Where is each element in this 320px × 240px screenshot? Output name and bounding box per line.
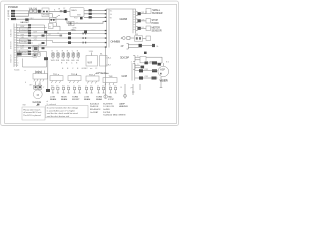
lamp box small1 [146, 9, 151, 14]
svg-text:GAUGE: GAUGE [33, 101, 42, 104]
svg-text:4P: 4P [121, 45, 124, 48]
connector dark row19 [25, 18, 28, 20]
svg-text:an: an [90, 68, 92, 70]
connector pair lower [145, 62, 148, 65]
svg-text:GAUGE: GAUGE [10, 29, 13, 37]
component box small A [33, 54, 37, 58]
box right of b1 [140, 56, 146, 62]
svg-text:POWER: POWER [8, 5, 18, 9]
capacitor C4 [66, 51, 70, 65]
connector battery input pin 4 [11, 18, 16, 20]
bracket connector b2 [133, 64, 135, 70]
svg-text:Please don't touch: Please don't touch [23, 108, 41, 111]
svg-text:B/W: B/W [34, 32, 38, 34]
ground bulb center [104, 95, 108, 99]
svg-text:5W: 5W [23, 105, 26, 107]
diode D1 [122, 37, 125, 40]
connector left of caps [44, 57, 48, 60]
svg-text:VISER: VISER [160, 78, 168, 82]
svg-text:of learned ECU unit: of learned ECU unit [23, 111, 42, 114]
label box CN1-3 [20, 50, 29, 54]
wire down to front lamps [47, 61, 49, 90]
ECU pin marks mid left [105, 30, 107, 31]
connector J3 [89, 9, 92, 11]
svg-text:GAUGE?: GAUGE? [20, 21, 30, 24]
wire aux links [57, 23, 61, 31]
connector J4 [89, 13, 92, 15]
svg-text:METER: METER [11, 41, 13, 49]
svg-text:LR-f: LR-f [107, 64, 112, 66]
connector dark on horn top [158, 63, 161, 66]
svg-text:G=RED: G=RED [103, 109, 111, 111]
lamp group 4 [84, 86, 93, 101]
svg-text:B2: B2 [49, 34, 51, 36]
svg-text:REAR: REAR [96, 98, 102, 101]
svg-text:LAMP: LAMP [119, 102, 125, 105]
connector J1 [38, 10, 41, 13]
bracket connector right 2 [136, 19, 138, 23]
svg-text:and the do-it bostne stuf: and the do-it bostne stuf [47, 115, 70, 118]
DUM box pins [36, 71, 45, 74]
capacitor C3 [61, 51, 65, 65]
svg-text:4P Hw/dw: 4P Hw/dw [98, 73, 108, 75]
svg-text:HORN: HORN [152, 22, 159, 25]
connector J2 [64, 10, 67, 13]
fuse F2 [34, 9, 37, 12]
label box CN1-1 [20, 28, 29, 32]
svg-text:BR=BLACK: BR=BLACK [90, 108, 101, 111]
DUM hatches [34, 79, 44, 81]
switch box 2 [69, 21, 75, 25]
legend column 1 [90, 102, 101, 113]
aux switch box [49, 24, 54, 29]
arrow mark [152, 44, 155, 47]
capacitor C2 [56, 51, 60, 62]
dark mark top right of section [144, 52, 147, 54]
note box 1 [22, 107, 45, 120]
wire row4 to ECU [96, 21, 107, 23]
svg-text:It can be twisted when the vol: It can be twisted when the voltage [47, 107, 79, 110]
small components mid row 35.5 [60, 35, 63, 37]
ECU box U1 [107, 9, 136, 48]
bracket connector 4P [127, 43, 129, 49]
lamp box small3 [146, 26, 151, 31]
svg-text:G=GRAY: G=GRAY [90, 111, 99, 114]
lamp group 3 [72, 86, 81, 101]
fuse box FB1 [42, 8, 49, 17]
svg-text:FRONT: FRONT [72, 99, 80, 101]
svg-text:Y=YELLOW: Y=YELLOW [103, 106, 114, 108]
dark box CN1 lower [17, 53, 22, 56]
capacitor C6 [76, 51, 80, 65]
svg-text:3D/C9P: 3D/C9P [120, 56, 129, 60]
svg-text:FR: FR [135, 34, 138, 36]
connector blobs column x29 [28, 24, 31, 55]
lamp box small2 [146, 19, 151, 24]
connector small row4 [65, 18, 67, 20]
wire ECU down [105, 48, 107, 95]
legend column 2 [103, 103, 126, 116]
bracket connector right 3 [136, 27, 138, 31]
svg-text:and the the check would be wir: and the the check would be wired [47, 112, 79, 115]
svg-text:SWITCH: SWITCH [11, 54, 13, 63]
svg-text:BEAM: BEAM [84, 98, 90, 101]
cap pin labels row2 [62, 68, 79, 70]
lamp group 2 [61, 86, 70, 101]
wire fuse box to main switch [49, 10, 70, 12]
connector horn bar 2 [139, 76, 143, 79]
wires mid right [135, 70, 158, 72]
svg-text:GAU: GAU [30, 17, 35, 20]
svg-text:GMAB: GMAB [120, 17, 128, 21]
connector horn bar 1 [139, 69, 143, 72]
wire vertical right [144, 57, 162, 63]
capacitor C5 [71, 51, 75, 65]
svg-text:MAIN: MAIN [71, 9, 77, 12]
lamp group 6 [108, 86, 117, 101]
bracket connector right 1 [136, 12, 138, 16]
dark blob left of lamps [46, 89, 50, 92]
connector pair 4P [139, 44, 142, 47]
connector dark mid [84, 30, 87, 33]
svg-text:Twd/Bw/dr MBdr GREEN: Twd/Bw/dr MBdr GREEN [103, 115, 126, 117]
connector dark top mid [80, 17, 83, 19]
svg-text:HSP: HSP [160, 69, 165, 72]
wire switch out 1 [84, 9, 107, 11]
motor M1 [33, 90, 42, 99]
connector battery input pin 2 [11, 13, 15, 15]
wire micro labels [34, 8, 57, 54]
empty box right [146, 36, 151, 41]
horn speaker SP1 [158, 66, 169, 76]
connector bar horn [131, 63, 133, 81]
wire switch out 2 [84, 13, 107, 15]
svg-text:Tamb: Tamb [14, 70, 20, 72]
DUM box [33, 74, 48, 79]
svg-text:BEAM: BEAM [50, 98, 56, 101]
svg-text:W=BLUE: W=BLUE [90, 106, 99, 108]
svg-text:GO8: GO8 [122, 74, 128, 78]
wire power row 1 [15, 10, 42, 12]
wire box to right vertical [146, 56, 162, 58]
svg-text:W R: W R [88, 62, 93, 65]
fuse F1 [30, 9, 33, 12]
svg-text:2 OR: 2 OR [147, 62, 153, 64]
page scan edge (decorative, unlabeled content below starts with schematic) [1, 1, 179, 125]
svg-text:OR: OR [145, 76, 149, 78]
connector dark mid-left [44, 31, 47, 34]
main switch box SW1 [70, 8, 84, 17]
wire ticks x80-84 rows [83, 33, 87, 44]
motor top box [35, 82, 37, 86]
relay box K3 [100, 56, 108, 67]
lamp group 1 [50, 86, 59, 101]
svg-text:LR-1: LR-1 [107, 58, 113, 60]
bracket connector b1 [133, 56, 135, 62]
ECU pin bar [108, 9, 110, 48]
wire branch down [53, 14, 61, 18]
connector J5 [89, 16, 92, 18]
connector dark x68 row42.5 [68, 41, 71, 44]
svg-text:SENSOR: SENSOR [152, 29, 162, 32]
connector horn 2 [152, 77, 157, 80]
svg-text:is used if ACC just #7 is high: is used if ACC just #7 is higher [47, 109, 75, 112]
svg-text:The ECU is placed: The ECU is placed [23, 115, 41, 117]
switch box on row4 wire [50, 17, 57, 22]
wire power row 3 [15, 11, 29, 16]
relay FR box [135, 36, 143, 41]
svg-text:FUSE: FUSE [43, 15, 49, 17]
svg-text:W/B: W/B [51, 60, 55, 62]
svg-text:STOP: STOP [108, 99, 114, 101]
ECU pin marks left [105, 10, 107, 11]
connector dark x68 row36-39 [68, 32, 71, 35]
relay K1 [33, 46, 39, 51]
connector dark x68 row38 [68, 37, 71, 40]
ground bulb [124, 94, 127, 97]
svg-text:15A: 15A [33, 7, 37, 10]
wire to lamp box 1 [141, 11, 146, 14]
wire power row 4 [14, 19, 96, 23]
svg-text:BEAM: BEAM [61, 98, 67, 101]
label box CN1-2 [20, 39, 29, 43]
component box small B [38, 53, 41, 57]
connector horn mid [152, 69, 157, 72]
svg-text:W: W [110, 18, 112, 20]
connector blobs column x41 [42, 35, 45, 50]
svg-text:B=BLACK: B=BLACK [90, 102, 100, 105]
left connector CN1 pin bar [13, 24, 15, 68]
connector battery input pin 1 [11, 10, 15, 12]
wire horn ground [160, 77, 162, 88]
wires from CN1 to middle [17, 25, 107, 67]
relay box K2 [86, 56, 98, 67]
wire power row 2 [15, 13, 53, 15]
svg-text:OHMBB: OHMBB [111, 39, 121, 43]
svg-text:1 RL: 1 RL [89, 51, 94, 53]
svg-text:BLINKER: BLINKER [152, 12, 163, 15]
svg-text:HEATER: HEATER [119, 105, 128, 108]
wire switch out 3 [84, 16, 107, 18]
svg-text:W=WHITE: W=WHITE [103, 103, 113, 105]
wire FR to box [143, 37, 147, 39]
lamp group 5 [96, 86, 105, 101]
wire to FR box [130, 37, 135, 39]
inductor L1 [60, 10, 63, 12]
capacitor C1 [51, 51, 55, 62]
CN1 pin labels [17, 28, 19, 68]
svg-text:P=PINK: P=PINK [103, 112, 111, 114]
connector battery input pin 3 [11, 15, 15, 17]
